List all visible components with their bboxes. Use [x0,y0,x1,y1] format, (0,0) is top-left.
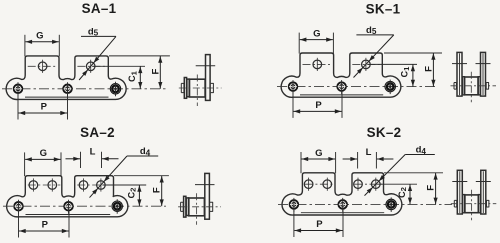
SA-1 C dimension extension line [92,65,145,67]
SK-1 end view right hole centreline stub [476,63,491,65]
SA-1 attachment hole 1 [38,62,47,71]
SK-1 dimension P extension lines [292,92,294,118]
SA-1 end view vertical centreline [196,75,198,107]
SA-2 end view outer link plate left [184,196,186,217]
SK-2 end view right bent plate (riser) [481,170,486,214]
svg-text:C1: C1 [400,66,411,78]
SK-2 C dimension extension line [377,183,417,185]
SA-2 attachment-plate holes centreline (plate 2) [77,184,112,186]
SK-2 dimension G line and arrows [302,158,336,160]
SK-1 end view inner plate left [462,77,464,95]
svg-text:SK–1: SK–1 [366,1,401,16]
SA-2 d4 leader line [127,155,158,157]
SK-2 dimension P line and arrows [294,230,342,232]
SK-2 end view vertical centreline [471,190,473,221]
SA-2 dimension P line and arrows [19,230,69,232]
SK-1 end view roller [465,77,478,95]
svg-text:G: G [315,148,322,159]
svg-text:P: P [316,219,323,230]
SK-2 end view horizontal centreline [451,203,497,205]
SK-2 inner plate bottom edge [301,212,384,214]
SK-1 end view horizontal centreline [451,85,497,87]
SK-1 end view inner plate right [478,77,480,95]
SK-2 roller pin 2 [338,200,347,209]
SA-2 end view horizontal centreline [178,206,221,208]
SK-2 end view left bent plate (riser) [457,170,462,214]
SK-2 dimension G extension lines [300,152,302,173]
SA-1 end view attachment hole centreline stub [196,65,216,67]
SA-1 d5 leader line [81,35,116,37]
SA-2 C dimension extension line [102,184,146,186]
SK-1 end view vertical centreline [470,72,472,103]
svg-text:C1: C1 [127,70,138,82]
SA-2 attachment hole 4 [97,181,106,190]
SA-2 end view pin stub right [210,202,213,211]
SA-1 roller pin 2 [63,85,72,94]
SA-1 end view roller [190,79,206,97]
SA-1 inner plate bottom edge [25,96,109,98]
SA-1 end view horizontal centreline [179,87,222,89]
SA-1 end view pin stub left [181,83,184,92]
SA-1 dimension G extension lines [24,35,26,57]
SK-1 F dimension line and arrows [432,53,434,87]
SK-2 attachment hole 3 [354,180,363,189]
SK-1 attachment-plate holes centreline (plate 2) [352,63,381,65]
SA-2 chain centreline [3,205,166,207]
SK-2 dimension L extension lines [357,152,359,169]
SA-2 chain side-view outline [7,176,128,217]
SA-1 chain centreline [2,88,166,90]
SA-2 inner plate bottom edge [26,214,111,216]
SK-2 end view pin stub left [454,200,456,207]
SK-2 attachment hole 2 [323,180,332,189]
SK-1 C dimension line and arrows [412,64,414,86]
SA-2 dimension P extension lines [18,211,20,237]
SK-2 F dimension line and arrows [435,173,437,205]
svg-text:G: G [40,148,47,159]
SA-1 C dimension line and arrows [139,66,141,89]
SK-2 d4 arrowheads at hole [379,175,385,181]
SK-1 chain centreline [277,86,438,88]
SK-2 roller pin 3 (bush ring) [386,199,396,209]
SA-2 attachment hole 1 [29,181,38,190]
SA-1 end view outer link plate left [184,78,186,99]
SK-1 end view left hole centreline stub [452,63,467,65]
SK-2 end view inner plate right [479,195,481,213]
SA-2 C dimension line and arrows [138,185,140,206]
SA-2 dimension G line and arrows [25,158,60,160]
svg-text:P: P [41,102,48,113]
SK-1 roller pin 3 (bush ring) [385,81,395,91]
SK-1 attachment hole 1 [313,60,322,69]
SK-1 chain side-view outline [281,53,401,97]
SA-2 dimension L line and outside arrows [66,158,81,160]
SA-1 dimension P extension lines [17,94,19,120]
SA-2 F dimension top extension line [114,175,169,177]
SK-2 d4 leader line [405,154,435,156]
SA-2 end view pin stub left [181,202,184,211]
SK-1 roller pin 2 [337,82,346,91]
SA-2 roller pin 3 (bush ring) [112,201,122,211]
SA-2 attachment-plate holes centreline (plate 1) [28,184,61,186]
SA-1 d5 arrowheads at hole [94,57,100,63]
SA-2 end view bent attachment plate (riser) [205,173,210,219]
SK-1 dimension G extension lines [298,33,300,54]
SA-2 dimension G extension lines [24,152,26,176]
SK-2 chain side-view outline [282,173,402,215]
SK-2 attachment hole 4 [372,180,381,189]
SA-1 attachment hole 2 [86,62,95,71]
SA-2 end view inner link plate left [186,198,188,216]
SA-1 chain side-view outline [6,56,126,100]
SA-2 end view roller [189,198,205,216]
SK-1 d5 leader line [356,34,393,36]
svg-text:P: P [42,220,49,231]
SK-1 end view pin stub left [454,83,456,90]
SA-1 end view inner link plate left [187,79,189,97]
SA-2 end view vertical centreline [196,193,198,225]
SA-2 attachment hole 3 [79,181,88,190]
SK-1 dimension G line and arrows [300,39,333,41]
svg-text:F: F [152,187,163,193]
svg-text:SK–2: SK–2 [367,125,402,140]
SA-1 F dimension top extension line [109,55,170,57]
SA-2 dimension L extension lines [80,152,82,168]
SA-1 dimension G line and arrows [25,41,58,43]
SA-2 d4 arrowheads at hole [104,176,110,182]
SK-2 attachment-plate holes centreline (plate 2) [355,183,383,185]
SK-2 end view right hole centreline stub [476,181,491,183]
SK-1 F dimension top extension line [384,52,442,54]
svg-text:L: L [366,147,372,158]
SK-1 end view left bent plate (riser) [457,52,462,96]
SA-1 end view bent attachment plate (riser) [206,55,211,101]
SA-2 F dimension line and arrows [161,176,163,207]
svg-text:C2: C2 [397,187,408,198]
SK-1 end view pin stub right [486,83,488,90]
SK-2 roller pin 1 [290,200,299,209]
svg-text:SA–2: SA–2 [80,125,115,140]
SK-1 end view right bent plate (riser) [481,52,486,96]
SK-2 end view pin stub right [487,200,489,207]
svg-text:F: F [426,185,437,191]
svg-text:G: G [313,28,320,39]
SA-2 end view attachment hole centreline stub [195,184,215,186]
SK-2 dimension L line and outside arrows [343,158,358,160]
svg-text:SA–1: SA–1 [82,1,117,16]
SA-1 F dimension line and arrows [159,56,161,89]
SA-1 roller pin 3 (bush ring) [110,84,120,94]
svg-text:F: F [423,66,434,72]
SK-2 dimension P extension lines [293,209,295,237]
SA-2 roller pin 1 [14,202,23,211]
SK-1 attachment-plate holes centreline (plate 1) [303,63,333,65]
SK-2 F dimension top extension line [384,172,443,174]
SA-2 attachment hole 2 [48,181,57,190]
SK-2 end view roller [465,195,478,213]
SK-2 end view left hole centreline stub [452,181,467,183]
SK-1 roller pin 1 [289,82,298,91]
SA-1 end view pin stub right [211,83,214,92]
SK-2 chain centreline [278,203,452,205]
SK-2 attachment hole 1 [304,180,313,189]
SK-1 dimension P line and arrows [294,110,342,112]
SK-2 attachment-plate holes centreline (plate 1) [305,183,334,185]
SK-2 end view inner plate left [463,195,465,213]
SA-1 roller pin 1 [14,85,23,94]
SA-1 attachment-plate holes centreline (plate 1) [28,65,58,67]
svg-text:G: G [36,31,43,42]
SK-1 d5 arrowheads at hole [369,55,375,61]
svg-text:P: P [315,100,322,111]
svg-text:L: L [90,147,96,158]
SA-1 dimension P line and arrows [19,112,68,114]
SA-2 roller pin 2 [64,202,73,211]
svg-text:C2: C2 [126,188,137,199]
SA-1 attachment-plate holes centreline (plate 2) [77,65,106,67]
SK-1 attachment hole 2 [362,60,371,69]
SK-1 inner plate bottom edge [300,94,383,96]
SK-2 C dimension line and arrows [409,184,411,204]
svg-text:F: F [150,68,161,74]
SK-1 C dimension extension line [367,63,417,65]
